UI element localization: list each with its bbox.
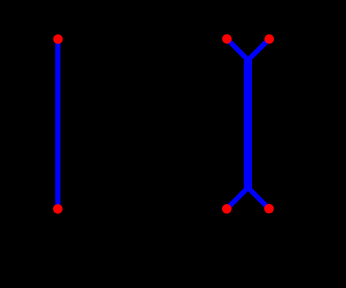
- node: right top-right: [264, 34, 274, 44]
- wire: right bundled edge A (top-left to bottom-left): [227, 39, 247, 209]
- node: right bottom-left: [222, 204, 232, 214]
- wire: left vertical edge: [55, 39, 60, 209]
- node: right top-left: [222, 34, 232, 44]
- node: left bottom: [53, 204, 63, 214]
- node: right bottom-right: [264, 204, 274, 214]
- node: left top: [53, 34, 63, 44]
- wire: right bundled edge B (top-right to bottom-right): [250, 39, 270, 209]
